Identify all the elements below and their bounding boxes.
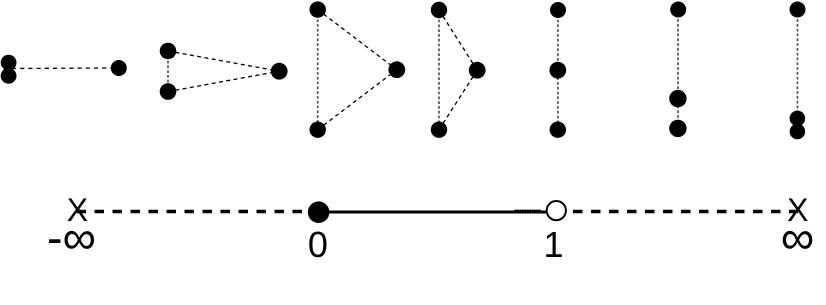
number line solid segment 0 to 1 [318,211,548,214]
fig4 bottom dot [431,122,447,138]
number line dashed segment left [77,210,304,213]
fig4 wire top to right [439,10,477,70]
fig3 bottom dot [310,122,326,138]
fig2 wire top-left to right [168,51,279,71]
fig2 wire vertical gray [167,51,169,92]
fig2 top-left dot [160,43,177,60]
svg-text:-∞: -∞ [47,211,96,264]
fig2 wire bottom-left to right [168,71,279,91]
number line dashed segment right [573,210,798,213]
fig7 merged dot top [790,111,806,127]
fig5 wire vertical gray [557,10,559,130]
fig3 top dot [310,1,326,17]
svg-text:0: 0 [308,224,328,265]
number line dotted texture before point 1 [516,210,542,212]
fig6 middle dot [669,90,686,107]
fig4 right dot [469,62,486,79]
point 0 filled circle [308,201,330,223]
fig1 merged dot top [1,55,17,71]
point 1 open circle [547,201,566,220]
fig3 wire bottom to right [318,70,397,130]
fig7 wire vertical gray [796,10,798,132]
fig3 wire vertical gray [317,10,319,130]
fig6 top dot [670,2,686,18]
fig1 wire pair to right dot [12,67,112,70]
fig7 top dot [790,2,806,18]
fig5 middle dot [549,62,566,79]
svg-text:1: 1 [543,224,563,265]
fig1 right dot [111,60,127,76]
fig2 right dot [271,63,288,80]
fig4 wire bottom to right [439,70,477,130]
fig3 wire top to right [318,10,397,70]
fig4 top dot [431,2,447,18]
fig5 bottom dot [550,122,566,138]
fig3 right dot [388,61,405,78]
fig7 merged dot bottom [790,124,806,140]
fig5 top dot [550,2,566,18]
fig2 bottom-left dot [160,83,177,100]
svg-text:∞: ∞ [781,211,815,264]
fig6 wire vertical gray [677,10,679,129]
fig4 wire vertical gray [438,10,440,130]
fig1 merged dot bottom [1,68,17,84]
fig6 bottom dot [669,120,686,137]
